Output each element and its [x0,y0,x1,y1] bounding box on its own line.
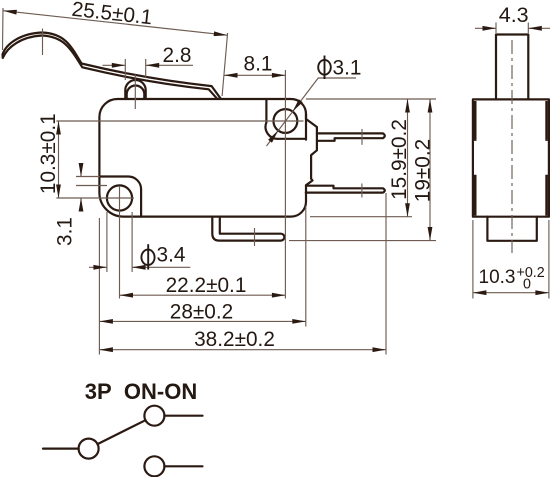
side bottom terminal block [487,217,536,241]
phi symbol of label 3.4 [141,250,154,265]
center line of button [134,75,136,110]
switch body outline [99,99,317,217]
arrow 2.8 left [112,63,126,68]
arrow 22.2 right [272,293,286,298]
ext line 25.5 right / 8.1 left [222,33,228,96]
ext line hole top tangent [76,185,107,187]
tick at lever hump apex [42,29,44,56]
arrow 4.3 right [528,26,542,31]
arrow 3.1 bottom [79,198,84,212]
side notch left upper [473,139,477,141]
thin lines: center lines and extension lines [3,8,551,355]
svg-text:15.9±0.2: 15.9±0.2 [388,119,411,200]
svg-text:8.1: 8.1 [244,53,273,76]
side notch right upper [545,139,549,141]
body right edge below corner [305,114,307,140]
ext vertical hole right tangent [131,212,133,272]
ext line 2.8 left [124,59,126,80]
tick terminal 2 [361,184,363,198]
tick terminal 1 [361,129,363,145]
mounting hole top-right [274,109,298,133]
side dim 4.3 tails [475,27,496,29]
arrow side 10.3 right [535,290,549,295]
contact common [79,439,99,459]
arrow 10.3 bottom [56,185,61,199]
dim line 15.9 vertical [407,99,409,217]
arrow 4.3 left [483,26,497,31]
svg-text:3.1: 3.1 [54,217,77,246]
svg-text:22.2±0.1: 22.2±0.1 [166,274,247,297]
dim line 2.8 right tail [146,64,193,66]
boss around bottom-left hole [100,177,141,217]
ext line 10.3 top at hole center [55,120,57,122]
contact NC lower [144,456,164,476]
lever tip cap [1,55,3,58]
arrow 8.1 left [224,73,238,78]
dim line 25.5 [3,11,227,36]
wire lower lead [164,465,202,467]
side notch right lower [545,174,549,176]
plunger button inner dome [127,85,145,98]
side center dashed line [511,40,513,253]
side plunger [496,35,528,100]
side view [473,35,549,241]
arrow side 10.3 left [473,290,487,295]
svg-text:3.4: 3.4 [157,244,186,267]
arrow phi3.4 left [93,265,107,270]
side ext 10.3 left [472,220,474,299]
svg-text:2.8: 2.8 [163,44,192,67]
svg-text:28±0.2: 28±0.2 [170,300,233,323]
arrow 28 left [99,319,113,324]
ext line 25.5 left [2,8,5,50]
tick terminal 3 [254,228,256,246]
side notch left lower [473,174,477,176]
svg-text:38.2±0.2: 38.2±0.2 [194,328,275,351]
center line vertical hole bottom-left / ext for 22.2 [119,186,121,299]
arrow 22.2 left [120,293,134,298]
svg-text:3P ON-ON: 3P ON-ON [85,379,197,404]
dim line phi3.4 right tail [132,266,190,268]
phi symbol of label 3.1 [318,60,331,75]
svg-text:19±0.2: 19±0.2 [412,139,435,202]
wire upper lead [164,415,202,417]
arrow tails 3.1 [80,163,82,177]
dimension texts [37,0,545,351]
ext horizontal top right for 15.9/19 [306,98,436,100]
side ext 10.3 right [548,220,550,299]
ext vertical hole left tangent [106,212,108,272]
svg-text:10.3±0.1: 10.3±0.1 [37,113,60,194]
arrow 19 bottom [428,227,433,241]
side ext 4.3 right [527,23,529,34]
lever outer line [3,33,221,99]
arrow 25.5 right [214,31,228,37]
terminal 1 (top right blade) [317,133,385,140]
dim line 22.2 [120,294,286,296]
lever inner line [3,36,217,99]
dim line 8.1 [224,74,285,76]
ext line boss top for 3.1 [76,176,100,178]
wire common lead [43,448,79,450]
ext line hole center left for 10.3/3.1 [56,197,134,199]
ext horizontal L terminal bottom for 19 [289,240,436,242]
boss around top-right hole [266,100,306,139]
plunger button outer dome [125,80,145,99]
side dim 10.3 [473,292,549,294]
arrow phi3.1 lower [268,129,280,143]
arrow 8.1 right [272,73,286,78]
arrow 19 top [428,99,433,113]
center line vertical hole top-right / ext for 8.1 and 22.2 [284,70,286,299]
ext vertical body left below [98,218,100,355]
side body edge rib left top [474,101,477,140]
arrowheads [3,8,549,352]
svg-text:25.5±0.1: 25.5±0.1 [71,0,154,29]
arrow phi3.1 upper [291,99,303,113]
side body edge rib right top [545,101,548,140]
arrow phi3.4 right [132,265,146,270]
arrow 10.3 top [56,121,61,135]
side body rectangle [473,99,549,216]
arrow 38.2 left [99,347,113,352]
arrow 15.9 bottom [405,203,410,217]
dim line phi3.4 left tail [89,266,107,268]
svg-text:10.3: 10.3 [479,267,516,288]
arrow 2.8 right [146,63,160,68]
arrow 15.9 top [405,99,410,113]
dim line 10.3 vertical [58,121,60,198]
terminal 3 (bottom L bracket) [212,217,284,241]
ext line 2.8 right [145,59,147,78]
side body edge rib left bottom [474,176,477,216]
svg-text:0: 0 [523,277,531,293]
dim line 38.2 [99,349,386,351]
side body edge rib right bottom [545,176,548,216]
arrow 25.5 left [3,8,17,14]
dim line 19 vertical [429,99,431,241]
arrow 38.2 right [373,347,387,352]
arrow 28 right [292,319,306,324]
svg-text:3.1: 3.1 [333,57,362,80]
dim line 2.8 left tail [103,64,126,66]
svg-text:4.3: 4.3 [499,3,529,27]
ext vertical body right below [305,206,307,327]
center line horizontal through holes [56,120,303,122]
side ext 4.3 left [495,23,497,34]
mounting hole bottom-left [107,185,132,210]
arrow 3.1 top [79,163,84,177]
dim line 28 [99,320,305,322]
leader phi3.1 [267,78,357,146]
ext horizontal body bottom right for 15.9 [310,216,412,218]
wire moving contact arm [98,420,146,444]
terminal 2 (lower right blade) [306,186,385,193]
ext vertical terminal tips [385,193,387,355]
contact NO upper [144,406,164,426]
